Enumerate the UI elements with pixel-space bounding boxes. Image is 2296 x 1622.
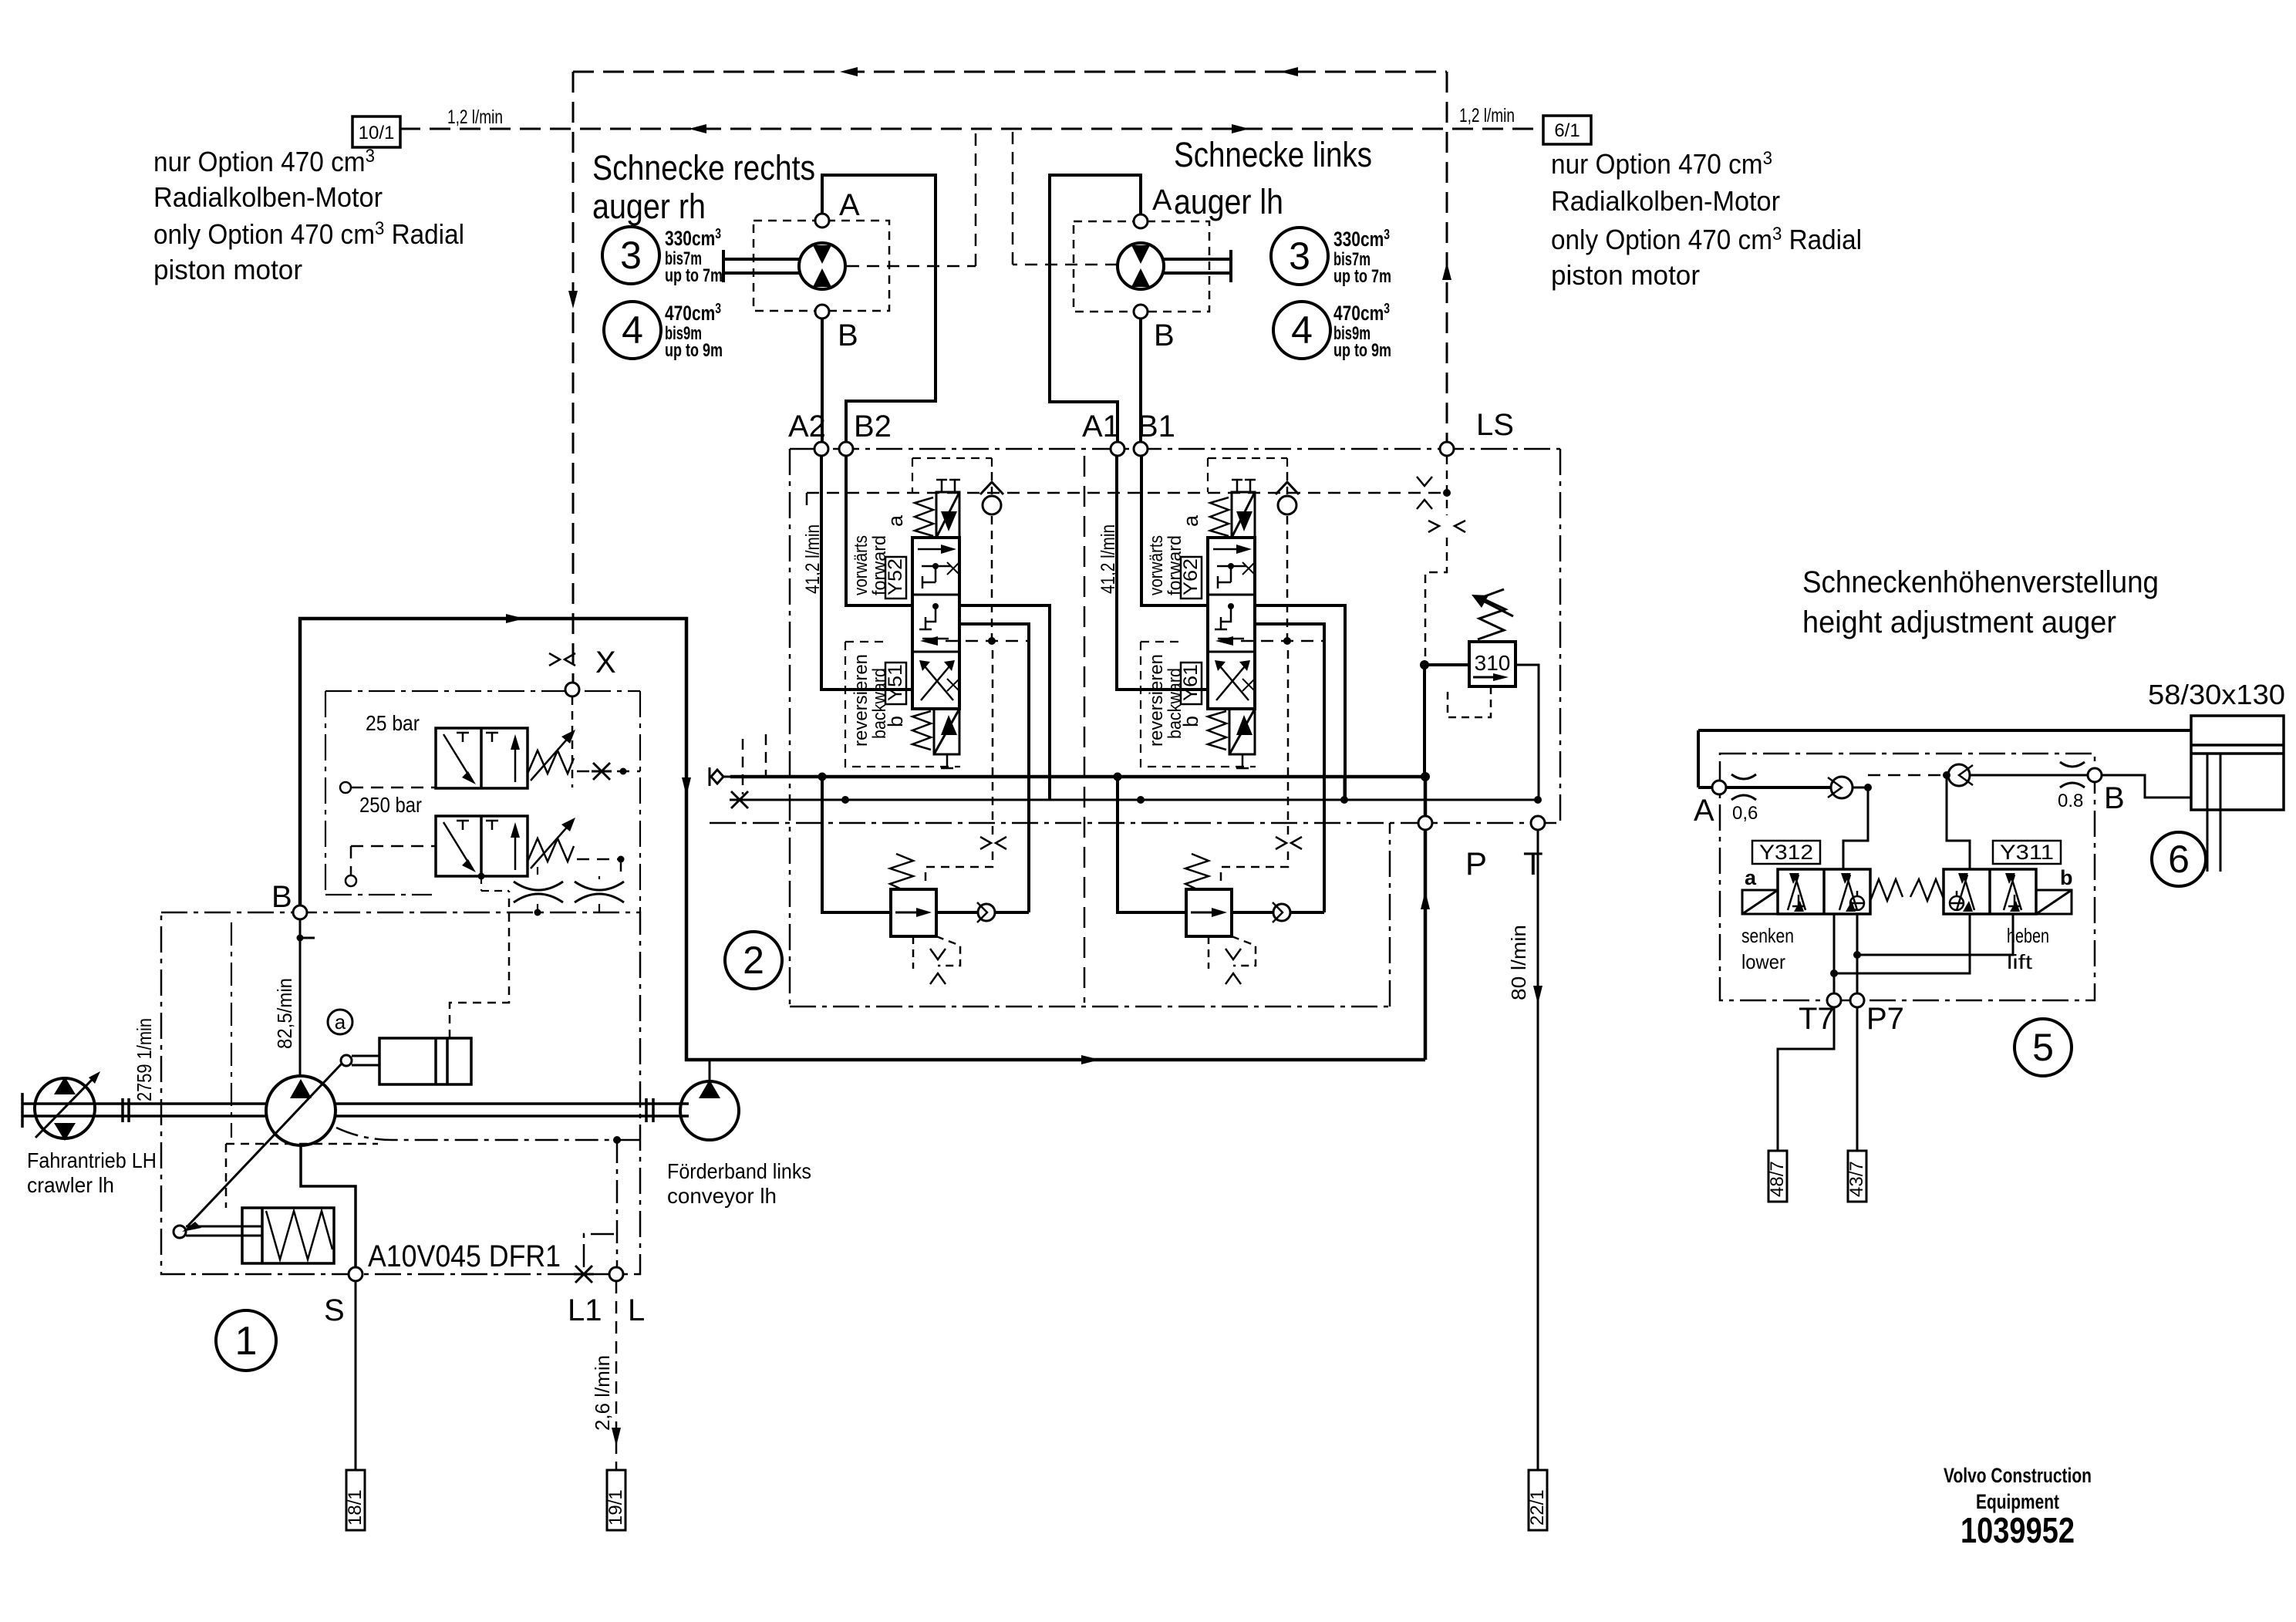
arrow down on T line: [1533, 986, 1542, 1004]
svg-text:3: 3: [1289, 234, 1310, 278]
svg-text:vorwärts: vorwärts: [1146, 535, 1167, 595]
svg-text:B2: B2: [854, 410, 892, 443]
svg-text:T: T: [1523, 845, 1543, 882]
Y312 solenoid: [1742, 890, 1778, 914]
wire T7 down to 48/7: [1778, 1007, 1834, 1151]
port B item5: [2088, 768, 2102, 782]
svg-text:Radialkolben-Motor: Radialkolben-Motor: [153, 181, 383, 213]
T rail plugged end: [730, 791, 750, 808]
wire valve Y52 lower to riser: [959, 624, 1029, 912]
check valve near Y62: [1276, 482, 1299, 514]
label Fahrantrieb LH crawler lh: [27, 1148, 157, 1197]
wire pilot to relief top dashed: [1221, 650, 1288, 887]
solenoid Y62: [1232, 492, 1255, 538]
wire LS pilot top dashed line: [573, 71, 1447, 73]
port X: [565, 683, 579, 696]
port A motor right: [1134, 214, 1148, 228]
arrow down on B feed riser: [682, 777, 691, 796]
svg-text:6: 6: [2168, 838, 2190, 881]
wire T rail: [749, 799, 1538, 801]
svg-text:a: a: [884, 514, 907, 527]
check valve A side: [1828, 777, 1853, 798]
label Foerderband links conveyor lh: [667, 1159, 811, 1208]
valve Y312: [1778, 869, 1870, 914]
svg-text:senken: senken: [1741, 924, 1794, 947]
svg-text:piston motor: piston motor: [1551, 259, 1700, 291]
svg-text:reversieren: reversieren: [851, 654, 872, 747]
tank mark below Y61: [1236, 754, 1249, 768]
callout circles 3 and 4 left: [602, 227, 659, 284]
svg-text:Y312: Y312: [1759, 841, 1813, 864]
actuator cylinder: [379, 1038, 471, 1084]
arrow right on P supply bottom: [1081, 1055, 1100, 1064]
arrows on top pilot line: [840, 67, 1298, 76]
wire pump to S: [301, 1145, 356, 1267]
pilot valve 250 bar: [436, 816, 528, 876]
wire 310 output to T: [1515, 665, 1539, 799]
port P7: [1850, 993, 1864, 1007]
port T: [1531, 816, 1545, 830]
valve Y62 a-section flow arrows: [1213, 545, 1255, 588]
svg-text:P7: P7: [1866, 1002, 1904, 1036]
wire actuator pilot dashed: [450, 891, 509, 1038]
wire conveyor pump stub: [709, 1060, 711, 1081]
svg-text:auger rh: auger rh: [592, 187, 706, 226]
svg-text:5: 5: [2032, 1026, 2054, 1069]
port B2: [839, 442, 853, 456]
cylinder 58/30x130: [2191, 716, 2284, 810]
wire motor right A wrap to A1: [1050, 175, 1141, 442]
dashed pilot box a-section: [1208, 458, 1287, 492]
spring cyl rod: [174, 1226, 262, 1238]
circle 5 designator: [2014, 1019, 2072, 1076]
relief drain vent: [913, 936, 960, 969]
wire S line: [355, 1281, 357, 1470]
throttle marks: [1276, 837, 1302, 849]
svg-text:B1: B1: [1138, 410, 1175, 443]
svg-text:S: S: [324, 1293, 345, 1327]
arrow right on B feed top: [506, 614, 524, 623]
svg-text:Y62: Y62: [1180, 558, 1202, 595]
dashed pilot box b-section: [1141, 642, 1256, 767]
wire lead 250 bar: [351, 846, 436, 875]
svg-text:Y61: Y61: [1180, 664, 1202, 701]
svg-text:height adjustment auger: height adjustment auger: [1802, 605, 2116, 639]
svg-text:a: a: [335, 1010, 346, 1034]
svg-text:Y311: Y311: [2000, 841, 2054, 864]
pump swash diagonal: [182, 1063, 342, 1232]
arrow right on drain line: [1232, 124, 1249, 133]
svg-text:19/1: 19/1: [605, 1489, 626, 1526]
svg-text:48/7: 48/7: [1767, 1161, 1788, 1197]
wire 250 bar pilot out dashed: [577, 859, 621, 879]
port LS: [1440, 442, 1454, 456]
wire Y62 inlet from B port: [1141, 456, 1208, 605]
svg-text:reversieren: reversieren: [1146, 654, 1167, 747]
relief 310 arrow: [1473, 673, 1509, 681]
plugged mark: [592, 763, 627, 780]
svg-text:43/7: 43/7: [1846, 1161, 1867, 1197]
svg-text:41,2 l/min: 41,2 l/min: [802, 524, 824, 594]
svg-text:2: 2: [743, 939, 764, 982]
pump unit boundary box item 1: [161, 912, 640, 1274]
solenoid Y51: [934, 709, 959, 754]
circle 6 designator: [2152, 832, 2206, 886]
wire relief feed from P rail: [1118, 777, 1186, 912]
connector box 19/1: [607, 1470, 625, 1530]
spring 250 bar: [528, 818, 575, 868]
motor auger rh (left): [799, 243, 845, 289]
throttle marks: [980, 837, 1006, 849]
svg-text:piston motor: piston motor: [153, 254, 302, 285]
svg-text:L1: L1: [568, 1293, 602, 1327]
wire relief feed from P rail: [822, 777, 891, 912]
valve Y52/Y51 body: [912, 538, 959, 709]
wire 310 pilot loop dashed: [1448, 686, 1491, 717]
spring 25 bar: [528, 730, 575, 781]
connector box 48/7: [1768, 1151, 1787, 1202]
motor left dashed case box: [754, 221, 889, 311]
valve Y61 b-section crossed arrows: [1215, 660, 1255, 700]
label heben lift: [2007, 924, 2049, 973]
wire check valve dashed vertical: [1286, 472, 1289, 641]
svg-text:crawler lh: crawler lh: [27, 1173, 114, 1197]
svg-text:B: B: [838, 319, 858, 352]
wire P7 riser: [1853, 914, 1861, 993]
svg-text:vorwärts: vorwärts: [851, 535, 872, 595]
Y312 tank mark: [1792, 895, 1805, 906]
svg-text:A1: A1: [1082, 410, 1120, 443]
Fahrantrieb swash arrow: [35, 1071, 100, 1138]
svg-text:T7: T7: [1799, 1002, 1835, 1036]
spring Y61: [1208, 711, 1226, 750]
svg-text:b: b: [2060, 866, 2073, 889]
svg-text:nur Option 470 cm3: nur Option 470 cm3: [1551, 148, 1772, 180]
throttle 0.8: [2060, 762, 2085, 787]
wire T7 riser: [1830, 969, 1838, 993]
relief valve 310: [1469, 642, 1515, 686]
svg-text:only Option 470 cm3 Radial: only Option 470 cm3 Radial: [1551, 224, 1862, 255]
port P: [1418, 816, 1432, 830]
svg-text:58/30x130: 58/30x130: [2148, 679, 2285, 710]
svg-text:B: B: [271, 880, 292, 914]
svg-text:3: 3: [620, 234, 642, 277]
svg-text:Schnecke rechts: Schnecke rechts: [592, 148, 815, 187]
orifice pair right: [575, 882, 624, 902]
svg-text:1,2 l/min: 1,2 l/min: [447, 106, 503, 128]
junction dots pilot: [478, 873, 541, 916]
connector box 43/7: [1848, 1151, 1866, 1202]
wire pilot dashed into valve Y51: [925, 640, 1029, 642]
svg-text:6/1: 6/1: [1554, 120, 1580, 141]
label X with throttle marks: [549, 653, 575, 666]
circle 2 designator: [725, 932, 782, 989]
connector box 22/1: [1529, 1470, 1547, 1530]
orifice pair left: [514, 882, 563, 902]
svg-text:P: P: [1465, 845, 1487, 882]
svg-text:250 bar: 250 bar: [359, 793, 422, 817]
Y311 solenoid: [2036, 890, 2072, 914]
wire P7 to Y311: [1857, 914, 2013, 955]
wire motor right drain dashed: [1013, 129, 1118, 265]
svg-text:X: X: [595, 646, 616, 679]
wire valve Y62 lower to riser: [1255, 624, 1324, 912]
pressure relief valve: [891, 889, 936, 936]
wire lead 25 bar: [351, 787, 436, 789]
motor right dashed case box: [1074, 221, 1209, 312]
wire pilot to relief top dashed: [925, 650, 993, 887]
note text left: [153, 146, 464, 285]
port A2: [814, 442, 828, 456]
label box Y62: [1181, 557, 1202, 599]
svg-text:a: a: [1745, 866, 1757, 889]
svg-text:41,2 l/min: 41,2 l/min: [1097, 524, 1119, 594]
svg-text:lower: lower: [1741, 950, 1785, 973]
relief spring: [890, 854, 913, 889]
solenoid Y61: [1229, 709, 1255, 754]
wire drain line 1,2 l/min dashed: [400, 128, 1543, 130]
pump outlet triangle: [290, 1079, 312, 1098]
callout circles 3 and 4 right: [1271, 228, 1328, 285]
wire Y62 inlet from A port: [1117, 456, 1208, 690]
svg-text:1: 1: [235, 1319, 258, 1364]
port T7: [1827, 993, 1841, 1007]
valve Y51 b-section crossed arrows: [919, 660, 959, 700]
wire T return riser right group: [1344, 776, 1346, 800]
port L: [609, 1267, 623, 1281]
svg-text:4: 4: [1291, 309, 1313, 352]
relief drain vent: [1209, 936, 1256, 969]
port B motor left: [815, 305, 829, 319]
junction dots on rails: [1340, 772, 1542, 804]
throttle on LS line: [1428, 521, 1465, 532]
svg-text:0,6: 0,6: [1732, 803, 1758, 824]
svg-text:Radialkolben-Motor: Radialkolben-Motor: [1551, 185, 1780, 217]
dashed pilot box a-section: [912, 458, 992, 492]
Y311 tank mark: [2008, 895, 2021, 906]
wire motor left B down to A2: [821, 319, 824, 442]
title Schnecke rechts / auger rh: [592, 148, 815, 226]
label box Y51: [885, 663, 906, 704]
valve Y62/Y61 body: [1208, 538, 1255, 709]
label Volvo Construction Equipment: [1944, 1464, 2092, 1513]
svg-text:B: B: [2104, 781, 2125, 815]
wire relief to riser: [936, 911, 1029, 914]
valve Y62 mid-section: [1215, 603, 1244, 639]
wire spring cyl dashed link: [226, 1144, 378, 1208]
svg-text:25 bar: 25 bar: [366, 711, 420, 735]
port S: [349, 1267, 362, 1281]
motor auger lh (right): [1118, 243, 1164, 289]
wire LS down dashed: [1425, 456, 1447, 662]
wire block lower boundary with P T ports: [710, 822, 1560, 824]
arrow left on drain line: [689, 124, 706, 133]
pump A10V045 circle: [266, 1076, 335, 1145]
label box Y52: [885, 557, 906, 599]
tank marks above Y52: [936, 480, 960, 492]
port A motor left: [815, 214, 829, 228]
wire pump vertical to B: [297, 919, 315, 1076]
relief 310 spring with arrow: [1472, 589, 1513, 639]
spring cylinder: [242, 1208, 334, 1263]
svg-text:470cm3: 470cm3: [665, 301, 721, 325]
port B pump: [293, 905, 307, 919]
svg-text:Y51: Y51: [885, 664, 906, 701]
dashed pilot box b-section: [845, 642, 960, 767]
svg-text:330cm3: 330cm3: [1333, 227, 1390, 251]
pilot valve 25 bar: [436, 728, 528, 788]
svg-text:up to 9m: up to 9m: [1333, 340, 1391, 361]
pump Fahrantrieb LH: [35, 1078, 95, 1138]
wire check2 to throttle B: [1970, 774, 2088, 777]
wire Y52 inlet from A port: [821, 456, 912, 690]
svg-text:B: B: [1154, 319, 1175, 352]
svg-text:conveyor lh: conveyor lh: [667, 1184, 777, 1208]
wire inner boundary dashed: [231, 922, 232, 1138]
svg-text:up to 9m: up to 9m: [665, 340, 723, 361]
wire 25 bar pilot out dashed: [577, 771, 640, 773]
check valve near Y52: [980, 482, 1003, 514]
svg-text:A10V045 DFR1: A10V045 DFR1: [368, 1239, 561, 1273]
junction dot at relief 310 input: [1420, 660, 1429, 669]
svg-text:1,2 l/min: 1,2 l/min: [1459, 105, 1515, 126]
svg-text:Fahrantrieb LH: Fahrantrieb LH: [27, 1148, 157, 1172]
actuator rod: [341, 1055, 379, 1066]
svg-text:2759 1/min: 2759 1/min: [133, 1018, 156, 1101]
svg-text:0.8: 0.8: [2058, 791, 2083, 811]
svg-text:82,5/min: 82,5/min: [273, 978, 296, 1049]
svg-text:10/1: 10/1: [359, 123, 395, 143]
connector box 18/1: [346, 1470, 365, 1530]
arrow up on P supply: [1421, 891, 1430, 909]
motor right shaft: [1164, 250, 1231, 282]
shaft main pump to conveyor: [335, 1098, 689, 1122]
wire motor left A wrap to B2: [822, 175, 936, 442]
svg-text:A: A: [1694, 794, 1714, 828]
shuttle marks at LS: [1417, 477, 1451, 509]
throttle 0,6: [1731, 774, 1756, 800]
svg-text:22/1: 22/1: [1527, 1489, 1548, 1526]
valve Y52 mid-section: [919, 603, 949, 639]
svg-text:310: 310: [1475, 651, 1511, 675]
svg-text:Y52: Y52: [885, 558, 906, 595]
arrow down on X pilot: [568, 291, 578, 309]
wire group separator dashed: [1084, 456, 1086, 1003]
wire pilot dashed into valve Y61: [1221, 640, 1324, 642]
item 5 boundary dash-dot box: [1720, 754, 2095, 1000]
svg-text:only Option 470 cm3 Radial: only Option 470 cm3 Radial: [153, 218, 464, 250]
relief spring: [1185, 854, 1209, 889]
svg-text:A: A: [1152, 184, 1172, 217]
svg-text:Förderband links: Förderband links: [667, 1159, 811, 1183]
check valve relief bypass: [977, 902, 995, 922]
solenoid Y52: [936, 492, 959, 538]
wire X pilot inside box dashed: [571, 696, 574, 787]
cylinder rod: [2207, 754, 2220, 872]
wire A to Y312: [1843, 787, 1868, 869]
title Schnecke links / auger lh: [1174, 135, 1372, 221]
svg-text:A: A: [839, 188, 860, 222]
wire dashed mid to check2: [1868, 774, 1940, 777]
svg-text:nur Option 470 cm3: nur Option 470 cm3: [153, 146, 375, 177]
wire P supply heavy: [1424, 777, 1428, 1060]
wire motor right B down to B1: [1139, 319, 1142, 442]
wire valve block top boundary dash-dot: [790, 448, 1560, 450]
svg-text:18/1: 18/1: [345, 1489, 366, 1526]
label box Y312: [1752, 841, 1820, 864]
label box Y311: [1993, 841, 2061, 864]
svg-text:4: 4: [622, 309, 643, 352]
wire P7 down to 43/7: [1856, 1007, 1859, 1151]
svg-text:auger lh: auger lh: [1174, 182, 1283, 221]
wire T line down: [1537, 830, 1539, 1470]
wire pilot rail y639 dashed: [807, 493, 1447, 509]
wire top line to cylinder: [1698, 730, 2191, 787]
svg-text:a: a: [1179, 514, 1202, 527]
spring Y52: [915, 497, 933, 536]
label box Y61: [1181, 663, 1202, 704]
svg-text:LS: LS: [1476, 408, 1514, 442]
wire LS junction to P riser: [1423, 665, 1426, 777]
orifice stubs dashed: [481, 867, 599, 912]
pilot valves dashed box: [325, 691, 640, 912]
spring inside cylinder: [266, 1211, 332, 1259]
note text right: [1551, 148, 1862, 291]
wire check2 to Y311: [1947, 775, 1970, 869]
valve Y52 a-section flow arrows: [918, 545, 959, 588]
svg-text:470cm3: 470cm3: [1333, 301, 1390, 325]
tank marks above Y62: [1232, 480, 1256, 492]
designator a circle: [328, 1010, 352, 1034]
port B1: [1134, 442, 1148, 456]
wire valve Y52 through to right riser: [959, 605, 1050, 800]
port B motor right: [1134, 305, 1148, 319]
wire valve Y62 through to right riser: [1255, 605, 1345, 800]
valve Y311: [1944, 869, 2036, 914]
title Schneckenhoehenverstellung: [1802, 565, 2159, 639]
svg-text:A2: A2: [788, 410, 826, 443]
arrow down on L line: [612, 1428, 621, 1446]
shaft left pump to main pump: [22, 1093, 266, 1128]
port L1 plugged: [574, 1266, 594, 1283]
wire X pilot vertical dashed: [572, 72, 575, 683]
wire motor left drain dashed: [847, 129, 976, 266]
P rail left fitting: [710, 767, 730, 786]
check valve relief bypass: [1273, 902, 1290, 922]
svg-text:80 l/min: 80 l/min: [1507, 925, 1530, 1000]
wire LS vertical dashed: [1446, 72, 1448, 441]
label senken lower: [1741, 924, 1794, 973]
svg-text:Schnecke links: Schnecke links: [1174, 135, 1372, 174]
port A item5: [1712, 781, 1726, 794]
wire relief to riser: [1232, 911, 1324, 914]
svg-text:up to 7m: up to 7m: [665, 265, 723, 286]
motor left shaft: [723, 250, 799, 282]
wire L line dashed: [615, 1281, 618, 1470]
pump Foerderband links: [680, 1081, 739, 1140]
wire pilot stubs to rails dashed: [743, 734, 766, 794]
svg-text:up to 7m: up to 7m: [1333, 266, 1391, 287]
wire 310 input: [1424, 663, 1469, 666]
spring between Y312 Y311: [1870, 879, 1944, 901]
svg-text:2,6 l/min: 2,6 l/min: [591, 1355, 614, 1431]
wire Y52 inlet from B port: [846, 456, 912, 605]
svg-text:L: L: [628, 1293, 645, 1327]
wire block boundary dash-dot: [790, 449, 1560, 1007]
check valve B side: [1943, 764, 1973, 786]
Y312 internals: [1788, 873, 1864, 912]
wire pump B feed heavy: [300, 619, 1425, 1060]
